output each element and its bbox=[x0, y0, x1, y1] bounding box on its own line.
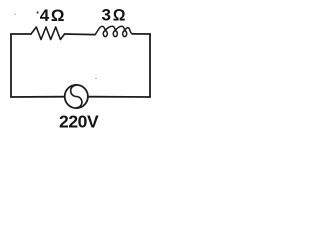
svg-text:4: 4 bbox=[40, 6, 50, 25]
svg-text:Ω: Ω bbox=[51, 6, 65, 25]
AC source sine S-curve bbox=[71, 85, 82, 108]
svg-text:Ω: Ω bbox=[113, 6, 126, 25]
wire bottom-left segment bbox=[11, 96, 65, 98]
wire top-left lead bbox=[11, 33, 31, 35]
speck bbox=[14, 13, 16, 15]
resistor R 4ohm zigzag bbox=[31, 27, 65, 40]
svg-text:3: 3 bbox=[102, 6, 111, 25]
wire left vertical bbox=[10, 34, 12, 97]
svg-text:220V: 220V bbox=[59, 112, 99, 132]
wire top-right lead bbox=[133, 33, 151, 35]
speck bbox=[95, 78, 96, 79]
speck bbox=[37, 11, 39, 13]
AC source V1 circle bbox=[65, 85, 88, 108]
wire right vertical bbox=[149, 34, 151, 97]
wire top-middle segment bbox=[65, 33, 96, 36]
wire bottom-right segment bbox=[88, 96, 150, 98]
inductor L 3ohm coil bbox=[95, 26, 133, 36]
